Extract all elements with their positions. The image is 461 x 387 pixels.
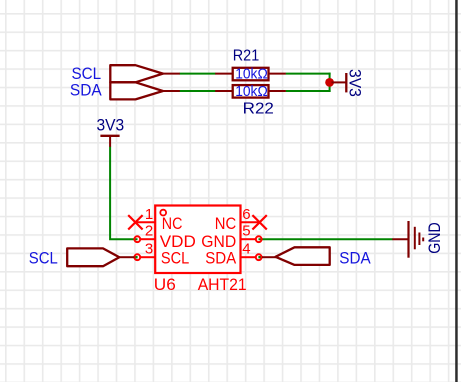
svg-text:U6: U6	[154, 276, 176, 294]
power 3V3 right: pin lead	[332, 81, 347, 83]
ground bar 2	[414, 227, 416, 250]
svg-text:1: 1	[145, 206, 153, 223]
power 3V3 right: bar	[345, 73, 347, 92]
svg-text:SCL: SCL	[161, 250, 189, 268]
ground GND: pin lead	[392, 238, 408, 240]
wire 3V3 vertical to pin2	[110, 147, 137, 240]
svg-text:10kΩ: 10kΩ	[235, 83, 268, 100]
wire R22 left (green)	[179, 90, 215, 92]
pin stub flag SCL	[162, 73, 180, 75]
junction dot	[325, 78, 334, 87]
svg-text:3V3: 3V3	[97, 117, 125, 135]
wire R21 left (green)	[179, 73, 215, 75]
svg-text:AHT21: AHT21	[198, 276, 247, 294]
ground bar 4	[422, 238, 424, 242]
svg-text:3V3: 3V3	[346, 69, 364, 97]
svg-text:SDA: SDA	[205, 250, 236, 268]
svg-text:3: 3	[145, 241, 153, 258]
power 3V3 top: bar	[100, 135, 119, 137]
svg-text:SDA: SDA	[339, 249, 370, 267]
wire pin5 to GND	[259, 238, 393, 240]
pin stub flag SCL bottom	[119, 256, 135, 258]
IC U6 body	[155, 206, 240, 274]
net flag SCL (bottom left)	[67, 248, 119, 266]
svg-text:10kΩ: 10kΩ	[235, 66, 268, 83]
svg-text:SDA: SDA	[70, 81, 102, 99]
svg-text:R21: R21	[233, 48, 259, 65]
pin 3	[141, 256, 155, 258]
svg-text:R22: R22	[243, 101, 274, 118]
pin 4 circle	[256, 254, 262, 260]
net flag SDA (top)	[110, 82, 163, 99]
pin 4	[241, 256, 256, 258]
no-connect X pin 1	[128, 215, 142, 229]
svg-text:SCL: SCL	[72, 65, 102, 83]
window edge right	[455, 0, 458, 382]
wire tip at pin 4	[258, 256, 261, 258]
power 3V3 top: stem	[109, 136, 111, 147]
wire R22 right (green)	[286, 90, 331, 92]
net flag SCL (top)	[110, 65, 163, 82]
wire tip at pin 3	[135, 256, 138, 258]
resistor R21	[233, 68, 269, 81]
svg-text:6: 6	[242, 206, 250, 223]
pin 1	[137, 221, 155, 223]
pin 5 circle	[256, 236, 262, 242]
ground bar 1	[407, 221, 409, 258]
no-connect X pin 6	[252, 215, 266, 229]
svg-text:VDD: VDD	[160, 233, 196, 251]
svg-text:SCL: SCL	[29, 250, 58, 268]
wire R21 right (green)	[286, 73, 331, 75]
pin 6	[241, 221, 259, 223]
ground bar 3	[418, 233, 420, 246]
svg-text:NC: NC	[215, 215, 237, 233]
svg-text:GND: GND	[426, 222, 444, 254]
svg-text:NC: NC	[162, 215, 183, 233]
net flag SDA (bottom right)	[276, 247, 330, 265]
pin 2 circle	[134, 236, 140, 242]
pin 5	[241, 238, 256, 240]
pin stub flag SDA	[162, 90, 180, 92]
svg-text:GND: GND	[201, 233, 236, 251]
wire vertical joining resistor outputs	[329, 73, 331, 92]
svg-text:5: 5	[242, 223, 250, 240]
resistor R22	[233, 85, 269, 98]
pin 2	[141, 238, 155, 240]
pin stub flag SDA bottom	[262, 256, 276, 258]
pin-1 marker circle	[160, 210, 166, 216]
pin 3 circle	[134, 254, 140, 260]
svg-text:2: 2	[145, 223, 153, 240]
svg-text:4: 4	[242, 241, 250, 258]
